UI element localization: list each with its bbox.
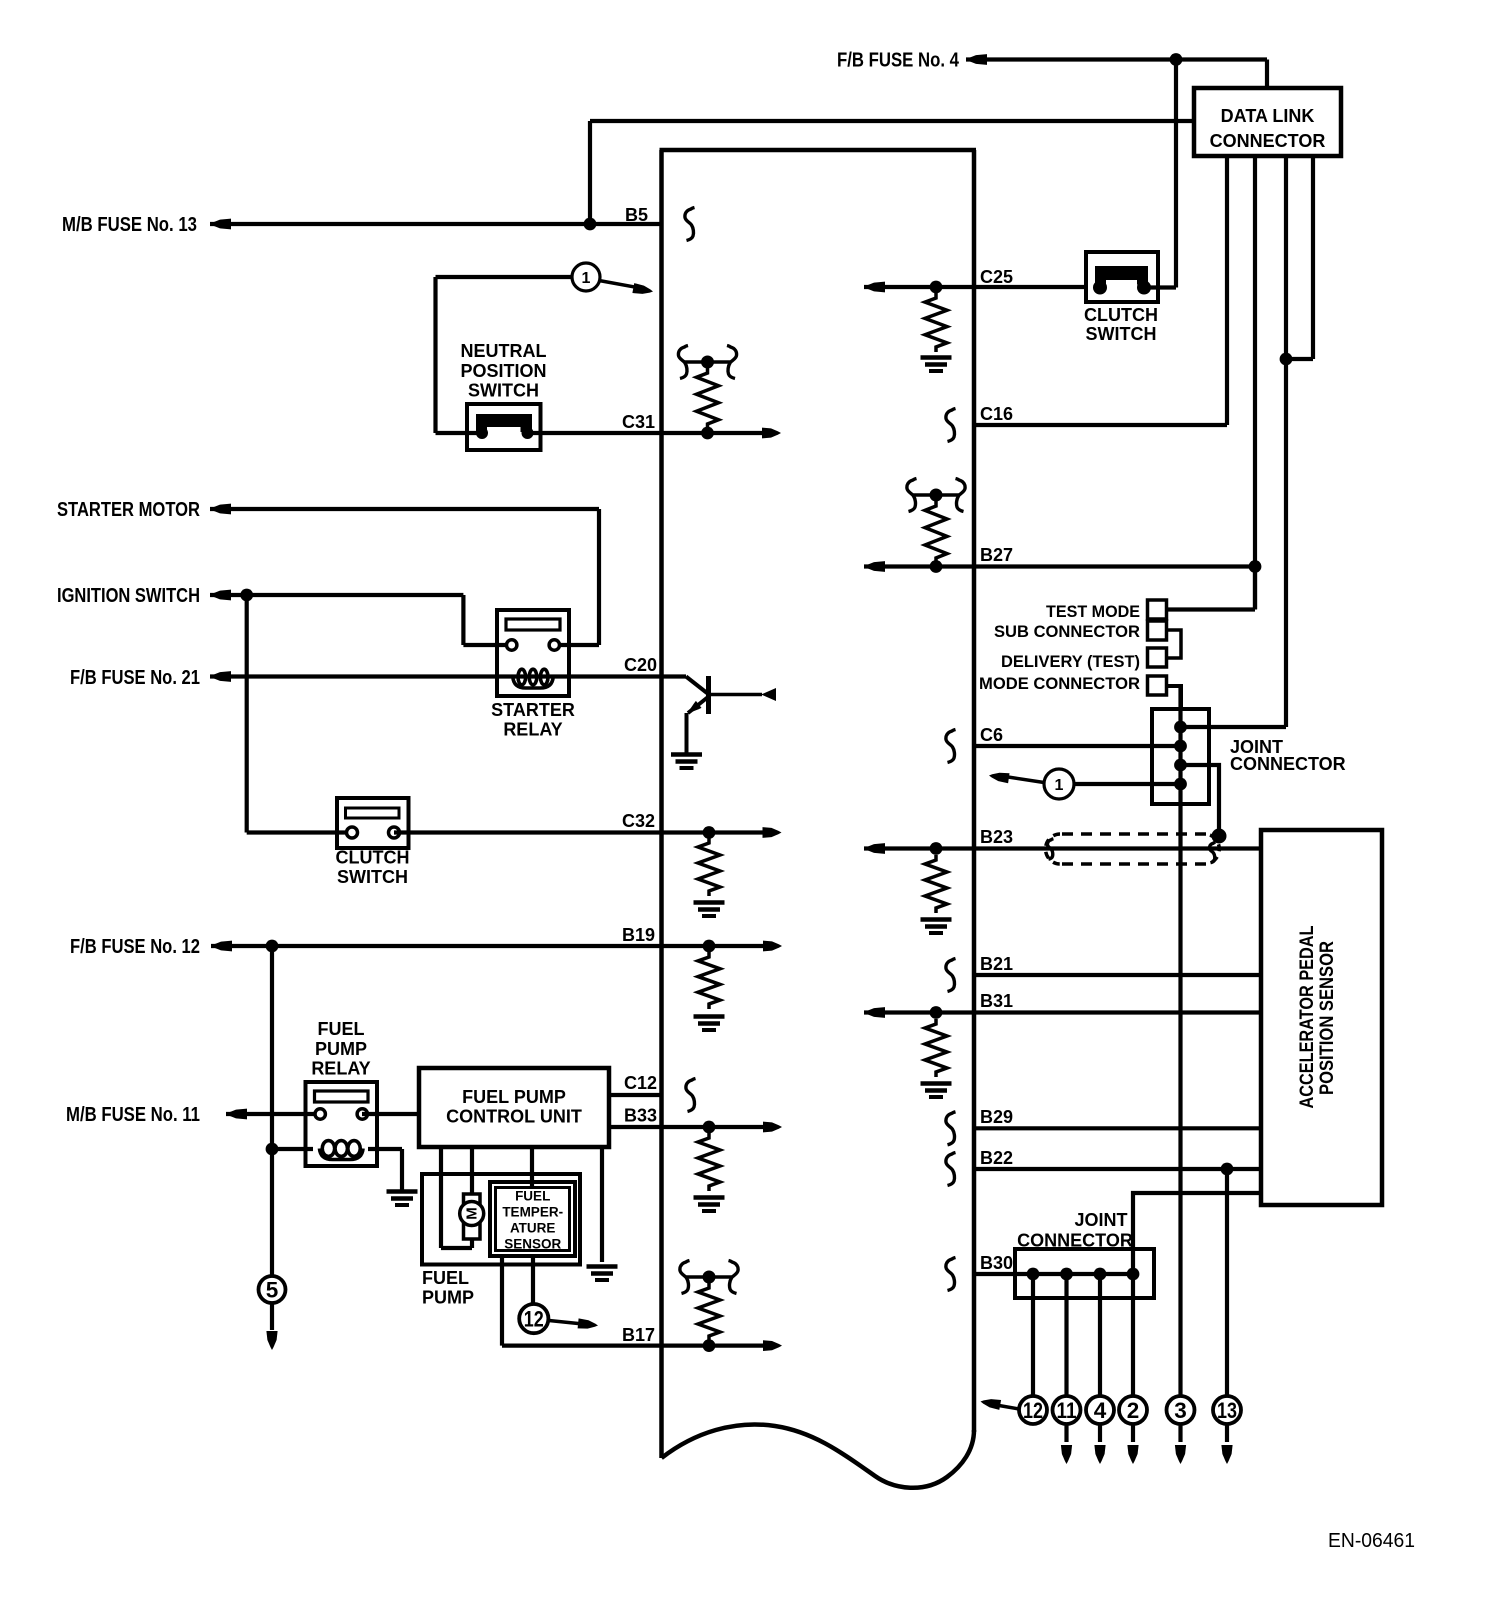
svg-text:B29: B29 bbox=[980, 1107, 1013, 1127]
svg-text:RELAY: RELAY bbox=[311, 1059, 370, 1079]
svg-text:2: 2 bbox=[1127, 1398, 1140, 1423]
svg-text:4: 4 bbox=[1094, 1398, 1107, 1423]
svg-text:C20: C20 bbox=[624, 655, 657, 675]
svg-text:STARTER: STARTER bbox=[491, 700, 575, 720]
svg-text:B19: B19 bbox=[622, 925, 655, 945]
svg-text:B31: B31 bbox=[980, 991, 1013, 1011]
svg-text:B30: B30 bbox=[980, 1253, 1013, 1273]
svg-text:CONNECTOR: CONNECTOR bbox=[1230, 754, 1346, 774]
svg-text:POSITION: POSITION bbox=[460, 361, 546, 381]
svg-text:FUEL: FUEL bbox=[515, 1189, 550, 1204]
svg-text:B17: B17 bbox=[622, 1325, 655, 1345]
svg-text:12: 12 bbox=[1023, 1398, 1043, 1423]
svg-text:12: 12 bbox=[524, 1307, 544, 1332]
svg-text:FUEL: FUEL bbox=[318, 1019, 365, 1039]
svg-text:ACCELERATOR PEDAL: ACCELERATOR PEDAL bbox=[1297, 925, 1318, 1108]
svg-text:DATA LINK: DATA LINK bbox=[1221, 106, 1315, 126]
svg-text:SENSOR: SENSOR bbox=[504, 1237, 561, 1252]
svg-text:JOINT: JOINT bbox=[1074, 1210, 1127, 1230]
svg-text:F/B FUSE No. 4: F/B FUSE No. 4 bbox=[837, 50, 960, 72]
svg-text:TEMPER-: TEMPER- bbox=[502, 1205, 563, 1220]
svg-text:POSITION SENSOR: POSITION SENSOR bbox=[1317, 941, 1338, 1095]
svg-text:C31: C31 bbox=[622, 412, 655, 432]
svg-text:F/B FUSE No. 12: F/B FUSE No. 12 bbox=[70, 936, 200, 958]
svg-text:CONNECTOR: CONNECTOR bbox=[1017, 1231, 1133, 1251]
svg-text:M/B FUSE No. 13: M/B FUSE No. 13 bbox=[62, 214, 197, 236]
svg-text:NEUTRAL: NEUTRAL bbox=[461, 341, 547, 361]
svg-text:B27: B27 bbox=[980, 545, 1013, 565]
svg-text:1: 1 bbox=[1055, 777, 1064, 794]
svg-text:B33: B33 bbox=[624, 1106, 657, 1126]
svg-text:SUB CONNECTOR: SUB CONNECTOR bbox=[994, 623, 1140, 641]
svg-text:PUMP: PUMP bbox=[315, 1039, 367, 1059]
svg-text:B23: B23 bbox=[980, 827, 1013, 847]
svg-text:C16: C16 bbox=[980, 404, 1013, 424]
svg-text:CLUTCH: CLUTCH bbox=[1084, 305, 1158, 325]
svg-text:TEST MODE: TEST MODE bbox=[1046, 603, 1140, 621]
svg-text:B22: B22 bbox=[980, 1148, 1013, 1168]
svg-text:CONTROL UNIT: CONTROL UNIT bbox=[446, 1107, 582, 1127]
svg-text:F/B FUSE No. 21: F/B FUSE No. 21 bbox=[70, 667, 200, 689]
svg-text:B21: B21 bbox=[980, 954, 1013, 974]
svg-text:IGNITION SWITCH: IGNITION SWITCH bbox=[57, 585, 200, 607]
svg-text:11: 11 bbox=[1057, 1398, 1077, 1423]
svg-text:FUEL: FUEL bbox=[422, 1268, 469, 1288]
svg-text:5: 5 bbox=[266, 1278, 279, 1303]
svg-text:SWITCH: SWITCH bbox=[468, 381, 539, 401]
svg-text:PUMP: PUMP bbox=[422, 1288, 474, 1308]
svg-text:ATURE: ATURE bbox=[510, 1221, 556, 1236]
svg-text:SWITCH: SWITCH bbox=[1086, 324, 1157, 344]
svg-text:M: M bbox=[464, 1207, 481, 1220]
svg-text:C25: C25 bbox=[980, 267, 1013, 287]
svg-text:C32: C32 bbox=[622, 811, 655, 831]
svg-text:STARTER MOTOR: STARTER MOTOR bbox=[57, 499, 200, 521]
svg-text:CONNECTOR: CONNECTOR bbox=[1210, 131, 1326, 151]
svg-text:M/B FUSE No. 11: M/B FUSE No. 11 bbox=[66, 1104, 200, 1126]
svg-text:RELAY: RELAY bbox=[503, 720, 562, 740]
svg-text:1: 1 bbox=[582, 270, 591, 287]
svg-text:SWITCH: SWITCH bbox=[337, 867, 408, 887]
svg-text:CLUTCH: CLUTCH bbox=[336, 848, 410, 868]
svg-text:13: 13 bbox=[1217, 1398, 1237, 1423]
svg-text:C12: C12 bbox=[624, 1073, 657, 1093]
svg-text:3: 3 bbox=[1174, 1398, 1187, 1423]
svg-text:DELIVERY (TEST): DELIVERY (TEST) bbox=[1001, 653, 1140, 671]
svg-text:FUEL PUMP: FUEL PUMP bbox=[462, 1087, 566, 1107]
svg-text:B5: B5 bbox=[625, 205, 648, 225]
svg-text:MODE CONNECTOR: MODE CONNECTOR bbox=[979, 675, 1140, 693]
svg-text:C6: C6 bbox=[980, 725, 1003, 745]
svg-text:EN-06461: EN-06461 bbox=[1328, 1530, 1415, 1552]
